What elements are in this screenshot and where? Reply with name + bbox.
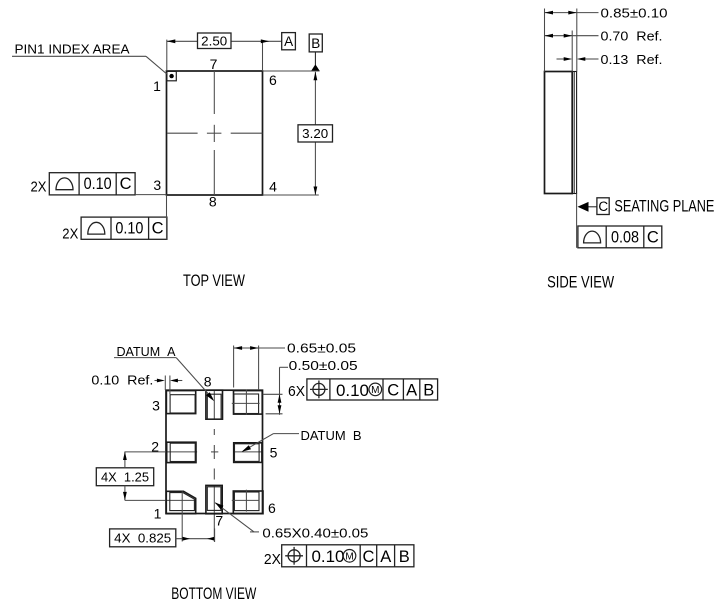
- circled M (2X frame): [343, 550, 356, 563]
- dimension 3.20 down arrowhead: [314, 187, 318, 196]
- DATUM A leader diagonal: [176, 358, 212, 399]
- svg-text:DATUM A: DATUM A: [117, 344, 176, 359]
- svg-text:2X: 2X: [62, 225, 78, 242]
- dimension 0.65 arrowheads: [234, 346, 243, 350]
- svg-text:B: B: [423, 381, 434, 399]
- svg-text:A: A: [380, 548, 391, 566]
- dimension 0.50 arrowheads: [278, 394, 282, 403]
- dimension 0.85 arrowheads: [545, 11, 554, 15]
- datum B leader line: [314, 52, 316, 65]
- seating plane extension line: [576, 194, 578, 248]
- svg-text:6X: 6X: [288, 383, 305, 400]
- svg-text:TOP VIEW: TOP VIEW: [183, 271, 245, 290]
- svg-text:0.10: 0.10: [84, 175, 112, 193]
- dimension 1.25 dimension lines: [124, 452, 126, 501]
- svg-text:0.85±0.10: 0.85±0.10: [601, 5, 668, 20]
- DATUM B arrowhead: [242, 445, 252, 452]
- position tolerance frame 2X: [282, 545, 414, 567]
- DATUM A arrowhead: [206, 392, 214, 401]
- svg-text:1: 1: [154, 505, 162, 521]
- pad 5 (bottom view): [234, 443, 262, 463]
- pad 8 (bottom view): [206, 390, 223, 419]
- svg-text:7: 7: [210, 56, 218, 72]
- svg-text:4X 0.825: 4X 0.825: [114, 531, 171, 546]
- svg-text:2X: 2X: [264, 551, 281, 568]
- datum B symbol box: [309, 34, 322, 52]
- svg-text:A: A: [406, 381, 417, 399]
- svg-text:0.10: 0.10: [312, 548, 345, 566]
- pad 7 (bottom view): [206, 485, 222, 513]
- svg-text:4X 1.25: 4X 1.25: [101, 469, 149, 484]
- svg-text:0.08: 0.08: [611, 228, 639, 246]
- pad 6 (bottom view): [233, 491, 263, 514]
- svg-text:A: A: [284, 34, 293, 49]
- svg-text:C: C: [363, 548, 375, 566]
- profile of surface symbol (upper frame): [56, 178, 73, 190]
- pad 1 with chamfer (bottom view): [166, 491, 195, 513]
- dimension 0.65 extension lines: [234, 346, 259, 391]
- top edge extension line: [263, 70, 319, 72]
- svg-text:5: 5: [270, 444, 278, 460]
- package outline (top view): [167, 71, 263, 195]
- lower profile tolerance frame: [81, 217, 167, 239]
- datum B filled triangle: [311, 64, 320, 71]
- pin1 index square: [167, 71, 176, 80]
- svg-text:SEATING PLANE: SEATING PLANE: [614, 197, 714, 216]
- lower frame leader line: [166, 195, 168, 239]
- svg-text:B: B: [311, 36, 320, 51]
- profile of surface symbol (side frame): [584, 231, 601, 243]
- svg-text:0.10: 0.10: [336, 382, 369, 400]
- dimension 0.50 leader: [280, 367, 289, 415]
- side view extension lines: [545, 9, 577, 72]
- pad 1 centerline: [181, 491, 183, 541]
- upper frame leader line: [135, 194, 166, 196]
- DATUM A leader underline: [114, 357, 176, 359]
- svg-text:2.50: 2.50: [201, 33, 227, 48]
- svg-text:C: C: [598, 199, 608, 214]
- svg-text:PIN1 INDEX AREA: PIN1 INDEX AREA: [15, 42, 130, 57]
- svg-text:0.50±0.05: 0.50±0.05: [289, 358, 358, 373]
- dimension 0.70 arrowheads: [545, 34, 554, 38]
- svg-text:3.20: 3.20: [302, 126, 328, 141]
- dimension 4X 0.825 box: [110, 529, 176, 547]
- leader 0.65X0.40 arrowhead: [215, 502, 224, 509]
- svg-text:C: C: [387, 381, 399, 399]
- dimension 4X 1.25 box: [96, 468, 153, 486]
- dimension 1.25 arrowheads: [123, 452, 127, 461]
- svg-text:8: 8: [209, 194, 217, 210]
- dimension 0.825 dimension line: [176, 538, 215, 540]
- profile of surface symbol (lower frame): [88, 222, 105, 234]
- svg-text:8: 8: [204, 374, 212, 390]
- svg-text:C: C: [120, 175, 132, 193]
- svg-text:3: 3: [152, 398, 160, 414]
- dimension 0.65 dimension line: [234, 347, 285, 349]
- bottom edge extension line: [263, 194, 319, 196]
- pin1 index dot: [169, 74, 173, 78]
- dimension 2.50 extension lines: [167, 40, 263, 71]
- svg-text:2: 2: [151, 438, 159, 454]
- svg-text:B: B: [399, 548, 410, 566]
- dimension 0.825 extension tick: [214, 528, 216, 542]
- dimension 0.70 line: [545, 35, 599, 37]
- svg-text:1: 1: [153, 78, 161, 94]
- svg-text:0.10: 0.10: [115, 220, 143, 238]
- vertical centerline (bottom view): [213, 390, 215, 541]
- leader 0.65X0.40: [215, 503, 259, 532]
- PIN1 leader diagonal: [146, 56, 167, 74]
- svg-text:0.65±0.05: 0.65±0.05: [287, 340, 356, 355]
- package outline (bottom view): [166, 390, 263, 513]
- flatness tolerance frame (side view): [578, 226, 662, 248]
- dimension 0.10 extension ticks: [165, 376, 170, 395]
- dimension 0.10 arrowheads: [157, 379, 165, 383]
- dimension 3.20 up arrowhead: [314, 72, 318, 81]
- dimension 3.20 dimension line: [314, 72, 316, 195]
- vertical centerline (top view): [213, 71, 215, 195]
- pad 4 (bottom view): [234, 391, 263, 415]
- dimension 2.50 right arrowhead: [261, 39, 270, 43]
- svg-text:C: C: [152, 220, 164, 238]
- svg-text:2X: 2X: [31, 179, 47, 196]
- dimension 2.50 dimension line: [167, 40, 282, 42]
- position symbol (6X frame): [310, 381, 328, 399]
- svg-text:C: C: [647, 228, 659, 246]
- svg-text:0.70 Ref.: 0.70 Ref.: [601, 29, 663, 44]
- position symbol (2X frame): [285, 547, 303, 565]
- dimension 2.50 left arrowhead: [167, 39, 176, 43]
- svg-text:SIDE VIEW: SIDE VIEW: [547, 272, 614, 291]
- pad row-1 centerline / extension: [125, 499, 196, 501]
- svg-text:0.10 Ref.: 0.10 Ref.: [91, 372, 153, 387]
- pad 2 (bottom view): [167, 442, 196, 462]
- terminal layer inner line: [573, 72, 575, 194]
- horizontal centerline (top view): [167, 132, 262, 134]
- datum C box: [597, 198, 609, 215]
- pad 6 centerlines: [232, 490, 260, 512]
- svg-text:3: 3: [153, 177, 161, 193]
- svg-text:6: 6: [269, 72, 277, 88]
- svg-text:0.13 Ref.: 0.13 Ref.: [601, 52, 663, 67]
- package body (side view): [545, 72, 573, 194]
- datum C filled triangle: [578, 202, 589, 212]
- dimension 0.13 lines: [557, 58, 599, 60]
- dimension box 2.50: [198, 33, 232, 49]
- svg-text:BOTTOM VIEW: BOTTOM VIEW: [171, 584, 256, 603]
- svg-text:6: 6: [268, 500, 276, 516]
- svg-text:M: M: [345, 551, 353, 562]
- dimension box 3.20: [298, 125, 333, 142]
- datum A symbol box: [282, 33, 296, 50]
- terminal layer (side view): [572, 72, 576, 194]
- svg-text:0.65X0.40±0.05: 0.65X0.40±0.05: [262, 525, 368, 540]
- dimension 0.10 arrow lines: [155, 380, 183, 382]
- PIN1 leader underline: [12, 55, 146, 57]
- position tolerance frame 6X: [307, 379, 438, 400]
- pad 4 centerlines: [232, 390, 260, 415]
- dimension 0.13 arrowheads: [564, 57, 573, 61]
- svg-text:7: 7: [215, 512, 223, 528]
- circled M (6X frame): [369, 383, 382, 396]
- svg-text:M: M: [371, 385, 379, 396]
- pad 3 (bottom view): [166, 391, 195, 414]
- datum C leader: [589, 206, 597, 208]
- dimension 0.825 arrowheads: [183, 537, 191, 541]
- dimension 0.85 line: [545, 12, 599, 14]
- DATUM B leader: [243, 434, 299, 451]
- svg-text:4: 4: [269, 178, 277, 194]
- dimension 0.50 extension lines: [263, 394, 283, 414]
- upper profile tolerance frame: [49, 173, 135, 195]
- horizontal centerline (bottom view): [125, 451, 262, 453]
- svg-text:DATUM B: DATUM B: [301, 428, 362, 443]
